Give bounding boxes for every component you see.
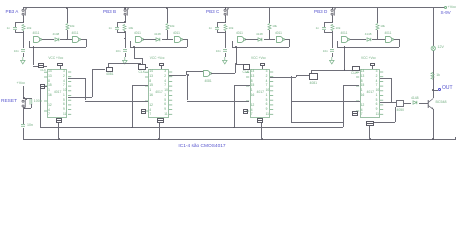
label D4 type xyxy=(365,33,372,36)
IC2 4017 body xyxy=(148,69,169,118)
wire rail to pullup A xyxy=(67,7,68,23)
label gate U4:B type xyxy=(385,32,392,36)
wire feedback left B xyxy=(130,41,131,47)
wire cap branch bottom C xyxy=(217,30,218,32)
diode D1 (A) xyxy=(54,37,61,42)
wire feedback left C xyxy=(232,41,233,47)
wire to OUT terminal xyxy=(433,90,439,91)
label C8 value xyxy=(288,50,328,53)
node gate input junction B xyxy=(124,38,126,40)
label pull-up value xyxy=(70,25,75,28)
wire feedback bottom A xyxy=(29,47,86,48)
resistor R1p pull-up (A) xyxy=(65,23,70,31)
node gate input junction C xyxy=(225,38,227,40)
label C9 value xyxy=(34,100,42,104)
wire IC1 clock box stub xyxy=(44,66,47,67)
wire box U7 up xyxy=(311,70,312,74)
label C1 value xyxy=(0,27,10,30)
node RC bottom junction A xyxy=(23,31,25,33)
wire IC4 reset riser xyxy=(343,85,344,127)
wire rail to button D xyxy=(332,7,333,9)
capacitor C5 debounce (C) xyxy=(215,27,219,30)
label C4 value xyxy=(81,50,121,53)
push-button PB3 (C) xyxy=(223,8,230,17)
wire latch D drop xyxy=(344,47,345,70)
power flag +Vcc IC1 xyxy=(57,63,63,66)
resistor R1 debounce (A) xyxy=(21,24,26,31)
diode D3 (C) xyxy=(257,37,264,42)
capacitor C4 filter (B) xyxy=(123,49,127,52)
wire filter cap to ground A xyxy=(23,53,24,57)
wire IC2 reset riser arm xyxy=(132,85,148,86)
IC1 4017 body xyxy=(47,69,68,118)
node S-9V net label xyxy=(441,10,451,15)
capacitor C8 filter (D) xyxy=(330,49,334,52)
nand gate U3:A (C) xyxy=(237,36,246,44)
IC2 left pin stubs xyxy=(145,70,149,118)
node output riser junction xyxy=(391,102,393,104)
wire IC3 reset riser arm xyxy=(234,85,250,86)
wire latch B to clock box xyxy=(142,58,143,64)
wire junction to gate2 D xyxy=(377,39,385,40)
label R9 xyxy=(436,74,440,78)
label IC3 clock pin xyxy=(243,71,250,75)
wire feedback bottom D xyxy=(337,47,399,48)
wire feedback right B xyxy=(187,39,188,46)
transistor Q1 NPN xyxy=(427,97,436,111)
wire cascade box up A-B xyxy=(108,63,109,66)
nand gate U4:B (D) xyxy=(385,36,394,44)
node rail junction R pullup C xyxy=(269,7,271,9)
pin box IC1 reset xyxy=(40,84,46,89)
pin box IC4 reset xyxy=(352,111,359,117)
IC2 right pin stubs xyxy=(169,70,173,118)
wire node to gate1 input C xyxy=(224,237,226,238)
driver box U7 xyxy=(396,100,404,107)
power flag +Vcc IC4 xyxy=(370,63,376,66)
wire diode to junction A xyxy=(60,39,67,40)
wire cap branch top D xyxy=(324,22,325,27)
resistor R9 output xyxy=(430,72,435,80)
lamp LP1 xyxy=(430,45,437,52)
capacitor C10 reset xyxy=(21,124,25,127)
node latch junction C xyxy=(269,39,271,41)
IC4 left pin names xyxy=(361,70,365,73)
label Q1 BC548 xyxy=(436,101,447,105)
wire gate1 out D xyxy=(350,39,367,40)
wire feedback right A xyxy=(86,39,87,46)
ground symbol D xyxy=(329,57,335,65)
node PB3 B net label xyxy=(103,9,116,14)
node rail junction button C xyxy=(225,7,227,9)
wire gate1 out B xyxy=(143,39,156,40)
wire IC3 reset riser xyxy=(234,85,235,127)
label +Vcc reset xyxy=(17,81,26,85)
wire IC2 output to riser xyxy=(169,75,186,76)
pin box IC1 clock xyxy=(38,63,44,68)
node latch junction D xyxy=(377,39,379,41)
nand gate U1:B (A) xyxy=(72,36,81,44)
node latch junction A xyxy=(66,39,68,41)
node gate input junction A xyxy=(23,38,25,40)
label gate U1:A type xyxy=(33,32,40,36)
push-button PB4 (D) xyxy=(330,8,337,17)
wire IC2 reset riser xyxy=(132,85,133,127)
label C5 value xyxy=(172,27,212,30)
wire gate2 out A xyxy=(81,39,86,40)
label gate U2:A type xyxy=(134,32,141,36)
label pull-up value xyxy=(380,25,385,28)
wire filter cap to ground C xyxy=(225,53,226,57)
buffer box U5 cascade A-B xyxy=(106,67,114,72)
label IC3 name xyxy=(257,91,265,95)
label IC3 vcc net xyxy=(251,57,266,61)
label gate U3:A type xyxy=(236,32,243,36)
IC3 4017 body xyxy=(250,69,271,118)
label pull-up value xyxy=(170,25,175,28)
node RC top junction B xyxy=(124,21,126,23)
label IC1 clock pin xyxy=(40,69,46,72)
node rail junction R pullup A xyxy=(66,7,68,9)
IC4 pin numbers xyxy=(376,70,378,73)
wire right supply vertical xyxy=(433,7,434,98)
wire IC1 pin8 to ground rail xyxy=(58,123,59,139)
label IC2 name xyxy=(155,91,163,95)
diode D2 (B) xyxy=(155,37,162,42)
wire cap branch top A xyxy=(15,22,16,27)
label +Vcc supply xyxy=(448,5,457,9)
resistor R2p pull-up (B) xyxy=(165,23,170,31)
wire rail to button C xyxy=(225,7,226,9)
wire riser B-C xyxy=(186,71,187,75)
node emitter to ground junction xyxy=(432,138,434,140)
resistor R5 debounce (C) xyxy=(223,24,228,31)
capacitor C2 filter (A) xyxy=(21,49,25,52)
wire cap branch bottom B xyxy=(117,30,118,32)
pin box IC2 reset xyxy=(141,109,146,114)
wire gate1 lower input B xyxy=(129,135,131,136)
wire latch B drop jog xyxy=(134,58,142,59)
node feedback C junction xyxy=(235,46,237,48)
IC1 right pin stubs xyxy=(68,70,72,118)
wire RC bottom bar C xyxy=(217,32,225,33)
wire latch B drop xyxy=(134,47,135,59)
capacitor C1 debounce (A) xyxy=(13,27,17,30)
wire gate1 out C xyxy=(245,39,258,40)
wire button B to RC xyxy=(125,15,126,22)
wire chain drop A xyxy=(85,78,86,101)
wire RC top bar C xyxy=(217,22,225,23)
wire gate1 lower input A xyxy=(29,33,41,34)
IC4 4017 body xyxy=(360,69,381,118)
nand gate U2:A (B) xyxy=(135,36,144,44)
label D3 type xyxy=(256,33,263,36)
ground symbol C xyxy=(222,57,228,65)
node rail junction button D xyxy=(332,7,334,9)
node feedback A junction xyxy=(33,46,35,48)
wire riser C-D xyxy=(296,75,297,77)
wire chain to IC4 xyxy=(291,101,360,102)
wire button A to RC xyxy=(23,15,24,22)
wire feedback left D xyxy=(337,41,338,47)
wire riser to box U8 xyxy=(395,107,396,123)
label IC2 clock pin xyxy=(139,71,146,75)
wire top rail stub to +9V terminal xyxy=(433,7,445,8)
wire IC4 below-box to riser xyxy=(374,122,395,123)
wire node to filter cap D xyxy=(332,38,333,48)
label gate U3:B type xyxy=(275,32,282,36)
wire RC top bar A xyxy=(15,22,23,23)
wire right emitter vertical xyxy=(433,109,434,139)
wire latch A clock drop xyxy=(33,47,34,66)
wire riser to gate U6 xyxy=(186,71,203,72)
pin box IC3 clock xyxy=(243,64,250,70)
label gate U1:B type xyxy=(72,32,79,36)
wire IC1 output to riser xyxy=(68,97,92,98)
node ground-rail right end tick xyxy=(455,137,456,140)
wire reset cap to ground rail xyxy=(23,128,24,140)
node feedback D junction xyxy=(344,46,346,48)
label IC1 vcc net xyxy=(48,57,63,61)
wire button D to RC xyxy=(332,15,333,22)
power flag +Vcc IC2 xyxy=(159,63,165,66)
wire diode to junction D xyxy=(372,39,377,40)
wire IC4 pin to riser top xyxy=(380,78,391,79)
IC3 right pin stubs xyxy=(270,70,274,118)
push-button PB5 RESET xyxy=(21,99,28,109)
wire IC3 output to riser xyxy=(270,77,296,78)
wire diode to base xyxy=(419,103,428,104)
IC1 left pin names xyxy=(48,70,52,73)
node feedback B junction xyxy=(133,46,135,48)
node PB3 A net label xyxy=(6,9,19,14)
label IC2 vcc net xyxy=(150,57,165,61)
wire reset button down xyxy=(23,108,24,124)
capacitor C9 across reset button xyxy=(29,99,33,105)
node IC3 riser rail junction xyxy=(233,127,235,129)
wire filter cap to ground D xyxy=(332,53,333,57)
wire RC top bar B xyxy=(117,22,125,23)
wire output riser xyxy=(391,78,392,103)
node chain B junction xyxy=(187,74,189,76)
node IC4 ground junction xyxy=(369,138,371,140)
wire U6 out riser xyxy=(235,64,236,73)
pin box IC4 clock xyxy=(352,66,360,72)
wire vcc flag to reset button xyxy=(23,86,24,100)
label R7 value xyxy=(336,27,341,30)
power flag +Vcc IC3 xyxy=(260,63,266,66)
ground symbol B xyxy=(122,57,128,65)
label IC4 clock pin xyxy=(351,72,358,76)
pin box IC1 pin8 xyxy=(56,118,62,122)
node rail junction R pullup B xyxy=(166,7,168,9)
wire reset rail left riser xyxy=(40,89,41,128)
capacitor C7 debounce (D) xyxy=(322,27,326,30)
wire feedback bottom B xyxy=(130,47,187,48)
wire pullup to junction A xyxy=(67,30,68,39)
IC2 pin numbers xyxy=(164,70,166,73)
wire RC top bar D xyxy=(324,22,332,23)
label IC4 name xyxy=(367,91,375,95)
wire diode to junction C xyxy=(264,39,270,40)
wire cap branch bottom A xyxy=(15,30,16,32)
label D1 type xyxy=(53,33,60,36)
node IC2 ground junction xyxy=(158,138,160,140)
node gate input junction D xyxy=(332,38,334,40)
wire rail to pullup D xyxy=(377,7,378,23)
IC3 left pin names xyxy=(251,70,255,73)
label gate U4:A type xyxy=(341,32,348,36)
wire IC1 chain top xyxy=(68,78,85,79)
wire chain drop B xyxy=(187,75,188,101)
node RC bottom junction C xyxy=(225,31,227,33)
wire IC3 pin8 to ground rail xyxy=(261,123,262,139)
label R1 value xyxy=(27,27,32,30)
nand gate U2:B (B) xyxy=(174,36,183,44)
node latch junction B xyxy=(166,39,168,41)
IC4 right pin stubs xyxy=(380,70,384,118)
node rail junction button B xyxy=(124,7,126,9)
resistor R7 debounce (D) xyxy=(330,24,335,31)
IC4 left pin stubs xyxy=(356,70,360,118)
wire feedback left A xyxy=(29,41,30,47)
diode D4 (D) xyxy=(366,37,373,42)
label C10 value xyxy=(27,124,33,128)
wire rail to pullup B xyxy=(167,7,168,23)
pin box IC2 clock xyxy=(138,64,146,70)
pin box IC2 pin8 xyxy=(157,118,163,122)
IC1 left pin stubs xyxy=(44,70,48,118)
node reset bottom junction xyxy=(23,107,25,109)
node RC top junction A xyxy=(23,21,25,23)
label D2 type xyxy=(154,33,161,36)
buffer box U7 cascade C-D xyxy=(309,73,318,80)
label U7 xyxy=(397,109,405,113)
pin box IC3 pin8 xyxy=(257,118,263,122)
node RESET net label xyxy=(1,99,17,104)
wire IC4 pin8 to ground rail xyxy=(369,126,370,138)
IC3 pin numbers xyxy=(266,70,268,73)
wire latch A drop to clock box xyxy=(33,66,38,67)
resistor R3 debounce (B) xyxy=(122,24,127,31)
wire reset cap bottom bar xyxy=(23,108,31,109)
label C2 value xyxy=(0,50,19,53)
wire riser A-B xyxy=(92,69,93,97)
wire gate1 out A xyxy=(42,39,55,40)
node rail junction R pullup D xyxy=(377,7,379,9)
label U5 xyxy=(106,73,114,77)
wire RC bottom bar D xyxy=(324,32,332,33)
wire filter cap to ground B xyxy=(125,53,126,57)
label pull-up value xyxy=(272,25,277,28)
wire clock box to IC2 xyxy=(146,67,149,68)
wire feedback right C xyxy=(289,39,290,46)
node latch D drop junction xyxy=(344,69,346,71)
label LP1 xyxy=(438,46,444,50)
wire node to filter cap A xyxy=(23,38,24,48)
node collector junction xyxy=(432,89,434,91)
wire gate2 out B xyxy=(183,39,188,40)
wire chain C staircase xyxy=(291,122,343,123)
wire RC bottom bar B xyxy=(117,32,125,33)
node latch C drop junction xyxy=(235,63,237,65)
wire RC to gate node B xyxy=(125,32,126,38)
wire latch C drop xyxy=(236,47,237,64)
nand gate U4:A (D) xyxy=(341,36,350,44)
wire cap branch top B xyxy=(117,22,118,27)
wire U7 to diode xyxy=(404,103,411,104)
wire diode to junction B xyxy=(162,39,167,40)
wire junction to gate2 B xyxy=(167,39,174,40)
wire node to filter cap C xyxy=(225,38,226,48)
push-button PB2 (B) xyxy=(123,8,130,17)
wire top supply rail xyxy=(23,7,434,8)
wire bottom reset rail xyxy=(40,127,342,128)
wire button C to RC xyxy=(225,15,226,22)
wire node to gate1 input A xyxy=(23,34,38,35)
label schematic title xyxy=(172,144,232,149)
wire IC2 pin8 to ground rail xyxy=(159,123,160,139)
wire node to gate1 input B xyxy=(124,135,126,136)
IC2 left pin names xyxy=(149,70,153,73)
label IC4 vcc net xyxy=(361,57,376,61)
label gate U2:B type xyxy=(173,32,180,36)
label R5 value xyxy=(229,27,234,30)
node PB3 D net label xyxy=(314,9,327,14)
label D5 xyxy=(411,97,419,101)
node IC1 ground junction xyxy=(58,138,60,140)
wire cascade top A-B xyxy=(108,63,141,64)
node OUT net label xyxy=(442,86,453,92)
resistor R4p pull-up (D) xyxy=(375,23,380,31)
label U6 xyxy=(205,80,212,84)
wire RC to gate node A xyxy=(23,32,24,38)
wire feedback bottom C xyxy=(232,47,289,48)
node RC bottom junction D xyxy=(332,31,334,33)
node RC top junction C xyxy=(225,21,227,23)
wire pullup to junction D xyxy=(377,30,378,39)
nand gate U3:B (C) xyxy=(276,36,285,44)
IC1 pin numbers xyxy=(63,70,65,73)
node OUT terminal circle xyxy=(438,88,441,91)
wire chain to IC3 xyxy=(187,101,249,102)
node PB3 C net label xyxy=(206,9,219,14)
wire RC to gate node D xyxy=(332,32,333,38)
wire RC to gate node C xyxy=(225,32,226,38)
ground symbol A xyxy=(20,57,26,65)
node IC3 ground junction xyxy=(261,138,263,140)
node chain C junction xyxy=(291,76,293,78)
node +9V supply terminal xyxy=(444,6,447,9)
wire gate2 out D xyxy=(394,39,399,40)
capacitor C6 filter (C) xyxy=(223,49,227,52)
wire chain drop C xyxy=(291,77,292,122)
diode D5 base xyxy=(412,100,419,105)
wire rail to button B xyxy=(125,7,126,9)
wire node to filter cap B xyxy=(125,38,126,48)
capacitor C3 debounce (B) xyxy=(115,27,119,30)
wire rail corner to button A xyxy=(23,7,24,9)
and gate U6 cascade B-C xyxy=(203,70,212,78)
wire cap branch top C xyxy=(217,22,218,27)
wire cascade top C-D xyxy=(311,70,352,71)
label C6 value xyxy=(181,50,221,53)
wire chain to IC2 xyxy=(85,101,149,102)
pin box IC3 reset xyxy=(243,109,248,114)
push-button PB1 (A) xyxy=(21,8,28,17)
resistor R3p pull-up (C) xyxy=(267,23,272,31)
wire riser to box U7 xyxy=(296,75,309,76)
